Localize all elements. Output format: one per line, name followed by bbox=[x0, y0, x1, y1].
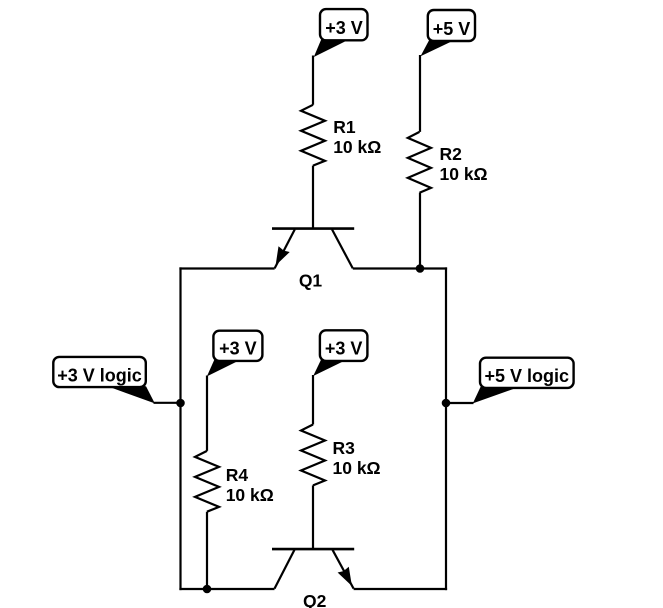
wire: +3 V to R1 top bbox=[312, 56, 314, 105]
wire: left rail (vertical) bbox=[179, 267, 181, 590]
net +5 V supply callout pointer flag bbox=[421, 40, 453, 56]
junction dot: +3 V logic node on left rail bbox=[176, 399, 185, 408]
svg-text:+3 V: +3 V bbox=[325, 18, 363, 38]
svg-text:10 kΩ: 10 kΩ bbox=[333, 137, 381, 157]
net +3 V supply callout box (top, above R1) bbox=[320, 9, 368, 40]
net +5 V logic callout pointer flag bbox=[473, 387, 519, 403]
junction dot: R4 node on bottom wire bbox=[203, 585, 212, 594]
svg-text:+5 V logic: +5 V logic bbox=[485, 366, 570, 386]
net +3 V (R4) callout pointer flag bbox=[207, 360, 238, 376]
transistor Q1 base bar bbox=[272, 227, 354, 230]
net +5 V logic callout box bbox=[480, 358, 574, 388]
svg-text:+3 V: +3 V bbox=[325, 338, 363, 358]
svg-text:R3: R3 bbox=[333, 438, 356, 458]
net +3 V logic callout pointer flag bbox=[108, 386, 155, 403]
resistor R2 zigzag bbox=[408, 132, 431, 193]
wire: Q1 collector to right rail bbox=[353, 267, 447, 269]
svg-text:+5 V: +5 V bbox=[433, 19, 471, 39]
wire: right rail (vertical) bbox=[445, 267, 447, 590]
svg-text:R4: R4 bbox=[226, 465, 249, 485]
wire: +3 V logic flag to left rail bbox=[154, 402, 182, 404]
resistor R4 zigzag bbox=[195, 451, 219, 512]
wire: bottom right (Q2 emitter to right rail) bbox=[354, 588, 448, 590]
transistor Q1 emitter arrowhead bbox=[276, 246, 290, 265]
svg-text:+3 V logic: +3 V logic bbox=[57, 366, 142, 386]
svg-text:+3 V: +3 V bbox=[219, 339, 257, 359]
net +3 V supply callout box (middle right, above R3) bbox=[320, 330, 368, 361]
wire: R2 bottom to junction with Q1 collector line bbox=[419, 193, 421, 269]
svg-text:10 kΩ: 10 kΩ bbox=[226, 485, 274, 505]
wire: R3 bottom to Q2 base bar bbox=[312, 485, 314, 548]
wire: R1 bottom to Q1 base bar bbox=[312, 166, 314, 228]
wire: +3 V to R3 top bbox=[312, 375, 314, 425]
net +5 V supply callout box (top, above R2) bbox=[428, 10, 475, 41]
resistor R3 zigzag bbox=[301, 425, 325, 486]
svg-text:10 kΩ: 10 kΩ bbox=[440, 164, 488, 184]
resistor R1 zigzag bbox=[301, 105, 325, 166]
wire: +5 V to R2 top bbox=[419, 55, 421, 132]
wire: right rail to +5 V logic flag bbox=[445, 402, 474, 404]
svg-text:Q2: Q2 bbox=[303, 591, 327, 608]
transistor Q2 collector slant bbox=[275, 550, 295, 589]
wire: Q1 emitter to left rail bbox=[179, 267, 274, 269]
net +3 V (R3) callout pointer flag bbox=[313, 360, 344, 376]
junction dot: +5 V logic node on right rail bbox=[442, 399, 451, 408]
net +3 V supply callout box (middle left, above R4) bbox=[213, 331, 262, 361]
net +3 V supply callout pointer flag bbox=[314, 39, 348, 57]
wire: R4 bottom to bottom wire bbox=[206, 512, 208, 590]
net +3 V logic callout box bbox=[53, 357, 146, 387]
transistor Q2 emitter slant bbox=[333, 550, 354, 589]
junction dot: R2 / Q1 collector node bbox=[416, 264, 425, 273]
transistor Q1 emitter slant bbox=[275, 229, 295, 268]
wire: bottom left (left rail to Q2 collector) bbox=[179, 588, 274, 590]
transistor Q2 emitter arrowhead bbox=[338, 567, 352, 586]
transistor Q1 collector slant bbox=[332, 229, 353, 268]
svg-text:R2: R2 bbox=[440, 144, 463, 164]
svg-text:Q1: Q1 bbox=[299, 271, 323, 291]
svg-text:10 kΩ: 10 kΩ bbox=[333, 458, 381, 478]
transistor Q2 base bar bbox=[272, 548, 354, 551]
wire: +3 V to R4 top bbox=[206, 376, 208, 451]
svg-text:R1: R1 bbox=[333, 117, 356, 137]
